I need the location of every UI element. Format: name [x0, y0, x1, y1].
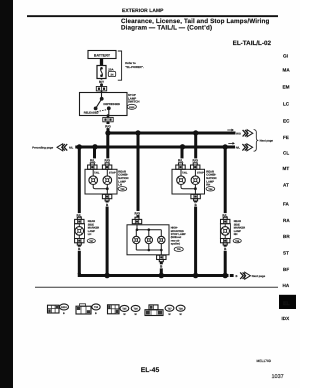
- svg-text:R/G: R/G: [193, 159, 199, 163]
- stop lamp switch label: [127, 93, 139, 109]
- connector pin 4 LH lamp ground: [102, 194, 111, 201]
- svg-text:CL: CL: [283, 151, 289, 156]
- svg-text:Next page: Next page: [252, 274, 266, 278]
- wire fuse to connector, R/Y: [98, 79, 105, 85]
- direction arrow upper bus: [227, 129, 234, 132]
- separator rule above connector strip: [35, 286, 278, 288]
- svg-text:RH: RH: [206, 184, 210, 187]
- high-mounted stop lamp: [127, 225, 169, 255]
- wire: marker RH drop R/L: [221, 147, 228, 217]
- node: high-mount tap: [135, 130, 140, 135]
- connector pin 1 RH tail: [176, 163, 185, 170]
- svg-text:FE: FE: [283, 135, 289, 140]
- svg-text:T30: T30: [177, 248, 182, 251]
- rear side marker LH label: [87, 220, 99, 243]
- wire: marker LH drop R/L: [75, 147, 82, 217]
- wire: LH lamp ground B: [105, 201, 109, 276]
- svg-text:BF: BF: [283, 267, 289, 272]
- connector pin 1 LH tail: [88, 163, 97, 170]
- IDX tab: [282, 316, 291, 321]
- svg-text:EL: EL: [283, 301, 290, 307]
- wire: marker LH ground B: [77, 245, 81, 274]
- wire: marker RH ground B: [223, 245, 227, 275]
- svg-text:SWITCH: SWITCH: [128, 100, 139, 104]
- header: section title: [27, 8, 278, 47]
- connector view T20: [76, 304, 100, 315]
- svg-text:E110: E110: [129, 106, 135, 109]
- svg-text:W: W: [135, 313, 138, 316]
- refer-to bracket: [118, 51, 144, 80]
- lower bus next-page label R/L: [236, 144, 253, 151]
- svg-text:Diagram — TAIL/L — (Cont’d): Diagram — TAIL/L — (Cont’d): [121, 25, 212, 32]
- node: RH lamp ground: [193, 273, 199, 279]
- high-mounted stop lamp label: [171, 227, 186, 252]
- wire: RH lamp ground B: [194, 201, 198, 276]
- upper bus next-page label R/G: [236, 130, 253, 137]
- svg-text:T20: T20: [94, 306, 99, 309]
- node: LH tail tap: [92, 144, 97, 149]
- rear combination lamp LH label: [118, 170, 128, 191]
- scan gutter black band: [0, 0, 13, 388]
- svg-text:spoiler): spoiler): [171, 243, 181, 246]
- connector pin 3 RH stop: [191, 163, 200, 170]
- fuse F1 20A: [97, 66, 116, 79]
- rear combination lamp RH label: [206, 170, 216, 191]
- node: marker LH tap: [77, 144, 82, 149]
- wire: LH tail drop R/L: [89, 147, 96, 163]
- svg-text:BR: BR: [283, 234, 290, 239]
- svg-text:T25: T25: [120, 188, 125, 191]
- connector pin 3 LH stop: [102, 163, 111, 170]
- connector pin 4 RH lamp ground: [191, 194, 200, 201]
- svg-text:R/G: R/G: [236, 133, 241, 136]
- svg-text:B: B: [63, 312, 65, 315]
- svg-text:R/G: R/G: [135, 211, 141, 215]
- svg-text:T25: T25: [122, 308, 127, 311]
- svg-text:24: 24: [111, 73, 114, 76]
- svg-text:TAIL: TAIL: [94, 171, 100, 174]
- rear combination lamp RH: [172, 169, 205, 194]
- footer: [141, 359, 284, 380]
- svg-text:IDX: IDX: [282, 316, 291, 321]
- svg-text:MT: MT: [283, 166, 290, 171]
- rear combination lamp LH: [85, 169, 117, 194]
- wire: RH tail drop R/L: [177, 147, 184, 163]
- svg-text:R/L: R/L: [90, 159, 95, 163]
- svg-text:EL-TAIL/L-02: EL-TAIL/L-02: [233, 40, 272, 47]
- side section tabs: [283, 54, 291, 288]
- direction arrow lower bus: [228, 142, 235, 145]
- wire connector to switch: [101, 91, 103, 93]
- wire: LH stop drop R/G: [104, 133, 111, 163]
- svg-text:AT: AT: [283, 183, 289, 188]
- connector view E110: [48, 304, 69, 315]
- node: high-mounted ground: [159, 273, 165, 279]
- node: LH lamp ground: [104, 273, 110, 279]
- inline connector E (fuse to switch): [96, 83, 106, 91]
- svg-text:1037: 1037: [272, 374, 284, 380]
- battery B1: [88, 51, 116, 59]
- lower bus tail feed from preceding page: [32, 144, 235, 151]
- svg-text:W: W: [180, 313, 183, 316]
- svg-text:R/L: R/L: [178, 159, 183, 163]
- svg-text:LH: LH: [88, 233, 92, 236]
- svg-text:HA: HA: [283, 283, 290, 288]
- svg-text:W: W: [123, 313, 126, 316]
- svg-text:EM: EM: [283, 85, 290, 90]
- EL tab highlighted: [279, 295, 296, 309]
- svg-text:BATTERY: BATTERY: [94, 54, 111, 58]
- svg-text:ST: ST: [283, 251, 289, 256]
- svg-text:Preceding page: Preceding page: [32, 146, 53, 150]
- svg-text:T27: T27: [89, 240, 94, 243]
- svg-text:R/L: R/L: [236, 147, 241, 150]
- connector pin high-mounted ground: [157, 255, 166, 262]
- wire switch to bus, R/G: [104, 122, 111, 133]
- node: marker RH tap: [223, 144, 228, 149]
- svg-text:RELEASED: RELEASED: [84, 112, 99, 115]
- rear side marker lamp LH: [75, 217, 85, 245]
- svg-text:EC: EC: [283, 118, 290, 123]
- node: RH tail tap: [180, 144, 185, 149]
- svg-text:R/G: R/G: [105, 159, 111, 163]
- svg-text:STOP: STOP: [197, 171, 204, 174]
- svg-text:EL-45: EL-45: [141, 367, 160, 374]
- svg-text:TAIL: TAIL: [182, 171, 188, 174]
- svg-text:T27: T27: [167, 307, 172, 310]
- svg-text:LH: LH: [118, 184, 122, 187]
- svg-text:B: B: [236, 275, 238, 278]
- svg-text:STOP: STOP: [109, 171, 116, 174]
- ground bus B: [79, 273, 228, 276]
- connector pin high-mounted stop: [132, 217, 141, 224]
- svg-text:LC: LC: [283, 101, 290, 106]
- wire battery to fuse: [100, 59, 103, 66]
- svg-text:E110: E110: [61, 306, 67, 309]
- svg-text:Next page: Next page: [260, 139, 274, 143]
- svg-text:R/G: R/G: [105, 124, 111, 128]
- svg-text:MEL178D: MEL178D: [257, 359, 272, 363]
- connector view T25/T26: [108, 305, 141, 316]
- svg-text:EXTERIOR LAMP: EXTERIOR LAMP: [122, 8, 164, 14]
- svg-text:T26: T26: [208, 188, 213, 191]
- node: RH stop tap: [193, 130, 198, 135]
- wire: RH stop drop R/G: [192, 133, 199, 163]
- svg-text:MA: MA: [283, 68, 291, 73]
- svg-text:FA: FA: [283, 202, 290, 207]
- wire: high-mounted ground B: [159, 262, 163, 276]
- rear side marker lamp RH: [220, 217, 230, 245]
- connector below switch: [103, 114, 113, 122]
- svg-text:T28: T28: [179, 307, 184, 310]
- svg-text:RH: RH: [234, 233, 238, 236]
- wire: high-mounted stop feed R/G: [134, 133, 141, 217]
- node: marker RH ground: [222, 273, 228, 279]
- svg-text:B: B: [95, 312, 97, 315]
- svg-text:“EL-POWER”.: “EL-POWER”.: [125, 65, 144, 69]
- svg-text:RA: RA: [283, 218, 290, 223]
- rear side marker RH label: [233, 220, 245, 243]
- svg-text:GI: GI: [283, 54, 288, 59]
- svg-text:R/L: R/L: [69, 146, 74, 149]
- next page brace: [254, 130, 274, 152]
- ground bus next-page B: [230, 272, 266, 279]
- connector view T27/T28: [145, 305, 185, 316]
- stop lamp switch S1: [80, 93, 128, 116]
- svg-text:T26: T26: [134, 308, 139, 311]
- upper bus R/G stop feed: [108, 131, 236, 134]
- svg-text:W: W: [168, 313, 171, 316]
- node: switch junction: [105, 130, 110, 135]
- svg-text:DEPRESSED: DEPRESSED: [103, 103, 120, 106]
